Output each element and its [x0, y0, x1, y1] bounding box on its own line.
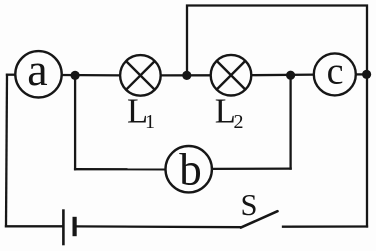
wire L2 to c: [251, 73, 314, 76]
junction node after L2: [286, 71, 295, 80]
wire a to L1: [62, 74, 121, 77]
lamp L2: [211, 55, 252, 96]
wire L1 to L2: [161, 74, 212, 76]
value label L2: [215, 93, 244, 134]
svg-text:c: c: [327, 51, 344, 93]
wire c to right vertical: [356, 73, 367, 75]
wire battery to switch: [76, 225, 241, 228]
wire b branch left horizontal: [75, 168, 165, 170]
wire left stub to ammeter a: [7, 74, 16, 76]
svg-text:a: a: [27, 44, 47, 95]
wire bottom left to battery: [6, 225, 62, 227]
wire switch to bottom right corner: [283, 225, 367, 227]
wire b branch right vertical: [289, 75, 291, 168]
svg-text:S: S: [241, 188, 258, 222]
junction node after a: [71, 71, 80, 80]
value label L1: [127, 93, 155, 134]
wire right vertical: [366, 74, 368, 227]
wire left vertical: [6, 75, 7, 227]
battery B1: [63, 209, 74, 245]
lamp L1: [120, 55, 161, 96]
wire b branch left vertical: [74, 75, 76, 169]
junction node between L1 and L2: [182, 71, 191, 80]
meter c: [314, 53, 356, 95]
meter b: [166, 146, 212, 192]
svg-text:2: 2: [234, 111, 244, 133]
junction node right of c: [362, 70, 371, 79]
wire b branch right horizontal: [212, 167, 291, 170]
wire top loop: [187, 6, 367, 76]
svg-text:1: 1: [145, 111, 155, 133]
switch S blade: [241, 211, 278, 227]
ammeter a (meter circle): [15, 51, 61, 97]
svg-text:b: b: [179, 145, 202, 195]
